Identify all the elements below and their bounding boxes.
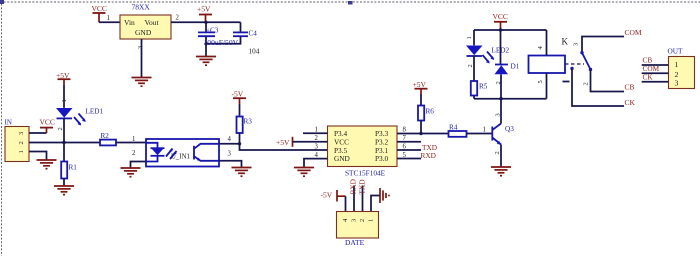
resistor R2 (100, 132, 116, 146)
relay NC contact to CK (563, 67, 625, 106)
svg-text:5: 5 (537, 80, 544, 83)
ground at opto pin3 (232, 168, 252, 177)
connector DATE (337, 212, 379, 248)
power -5V (R3) (232, 90, 247, 105)
svg-text:DATE: DATE (345, 238, 365, 247)
svg-text:COM: COM (625, 28, 642, 37)
ground under Q3 (491, 167, 511, 176)
svg-text:+5V: +5V (197, 5, 211, 14)
relay armature (582, 53, 592, 72)
wire opto pin4 to R3 junction (219, 136, 240, 144)
svg-text:R2: R2 (101, 132, 110, 140)
svg-text:1: 1 (61, 99, 68, 102)
svg-text:R6: R6 (426, 108, 435, 116)
power -5V (DATE) (321, 190, 346, 202)
power VCC (IN pin3) (40, 117, 55, 133)
svg-text:C4: C4 (249, 29, 258, 37)
wire IN pin3 to VCC (29, 132, 47, 134)
svg-text:6: 6 (403, 144, 407, 151)
svg-text:78XX: 78XX (132, 3, 151, 12)
wire MCU pin4 GND (304, 152, 328, 167)
svg-text:-5V: -5V (232, 90, 244, 99)
wire MCU pin1 stub (303, 127, 328, 134)
sheet center tick (348, 1, 353, 5)
svg-text:GND: GND (135, 28, 152, 37)
svg-text:2: 2 (57, 127, 64, 130)
net label CB (625, 82, 635, 91)
ground under C3 (196, 57, 216, 66)
value label C3 100uF/50V (204, 38, 239, 47)
svg-text:+C3: +C3 (206, 26, 219, 34)
LED LED2 (466, 30, 509, 81)
svg-text:1: 1 (675, 60, 679, 69)
svg-text:1: 1 (315, 127, 318, 134)
wire relay bottom rail (474, 98, 547, 100)
wire MCU pin8 to R4 (397, 127, 449, 134)
wire opto output to MCU P3.5 (240, 144, 328, 150)
svg-text:RXD: RXD (421, 151, 436, 160)
connector IN (5, 119, 30, 162)
svg-text:CB: CB (625, 82, 635, 91)
optocoupler U_IN1 (146, 139, 219, 167)
svg-text:+5V: +5V (413, 80, 427, 89)
svg-text:4: 4 (315, 152, 319, 159)
power +5V (LED1) (56, 71, 71, 85)
wire relay top rail (474, 29, 547, 31)
svg-text:TXD: TXD (358, 180, 367, 195)
junction at +5V / C3 (204, 21, 207, 24)
capacitor C4 (206, 22, 260, 55)
wire IN pin2 main input net (29, 142, 100, 144)
capacitor C3 (198, 22, 219, 56)
wire OUT pin2 (642, 64, 669, 73)
junction D1/collector (499, 97, 502, 100)
svg-text:R4: R4 (449, 123, 458, 131)
junction LED1/R1 on input net (62, 141, 65, 144)
svg-text:-5V: -5V (321, 191, 333, 200)
wire IN pin1 to ground (29, 152, 47, 160)
transistor Q3 (492, 113, 514, 166)
resistor R3 (237, 104, 253, 144)
svg-text:100uF/50V: 100uF/50V (204, 38, 239, 47)
svg-text:1: 1 (368, 219, 375, 222)
wire opto pin2 to ground (131, 150, 147, 168)
svg-text:Vin: Vin (124, 18, 135, 27)
svg-text:LED1: LED1 (86, 108, 104, 116)
wire DATE pin3 RXD (349, 179, 358, 211)
wire DATE pin4 (345, 196, 347, 211)
svg-text:+5V: +5V (56, 71, 70, 80)
wire MCU pin6 TXD (397, 143, 437, 152)
power +5V (R6) (413, 80, 428, 94)
wire OUT pin1 (642, 55, 669, 65)
svg-text:2: 2 (176, 15, 180, 22)
ground at opto pin2 (121, 168, 141, 177)
connector OUT (668, 46, 695, 88)
wire opto pin3 to ground (219, 150, 242, 167)
power +5V (regulator output) (197, 5, 212, 23)
svg-text:3: 3 (675, 78, 679, 87)
svg-text:OUT: OUT (668, 46, 684, 55)
regulator U 78XX (120, 3, 171, 40)
svg-text:104: 104 (249, 47, 260, 55)
wire VCC to 78XX Vin (99, 21, 120, 23)
ground under R1 (54, 186, 74, 195)
wire R4 to Q3 base (467, 126, 493, 133)
junction C4 return (204, 42, 207, 45)
junction R3/opto output (238, 142, 241, 145)
wire 78XX Vout to +5V node (171, 21, 241, 23)
svg-text:CK: CK (625, 98, 636, 107)
svg-text:3: 3 (18, 132, 25, 135)
svg-text:R5: R5 (479, 83, 488, 91)
wire DATE pin2 TXD (358, 180, 367, 212)
svg-text:2: 2 (132, 150, 136, 157)
wire MCU pin2 VCC (293, 135, 328, 142)
svg-text:1: 1 (107, 15, 110, 22)
svg-text:2: 2 (583, 82, 590, 85)
svg-text:2: 2 (467, 64, 474, 67)
LED LED1 (56, 85, 103, 143)
svg-text:D1: D1 (511, 63, 520, 71)
wire MCU pin5 RXD (397, 151, 436, 160)
relay actuation dashed link (565, 63, 584, 65)
svg-text:U_IN1: U_IN1 (171, 153, 190, 160)
power VCC (78XX input) (92, 4, 107, 23)
net label COM (625, 28, 642, 37)
ground under 78XX (132, 78, 152, 87)
svg-text:R1: R1 (69, 164, 78, 172)
svg-text:7: 7 (403, 135, 407, 142)
resistor R6 (418, 94, 434, 134)
resistor R4 (449, 123, 467, 137)
svg-text:VCC: VCC (40, 117, 55, 126)
svg-text:3: 3 (137, 46, 144, 49)
wire OUT pin3 (642, 72, 669, 81)
svg-text:3: 3 (573, 43, 580, 46)
svg-text:2: 2 (359, 219, 366, 222)
svg-text:CK: CK (643, 72, 654, 81)
svg-text:GND: GND (334, 154, 350, 163)
svg-text:1: 1 (132, 136, 135, 143)
svg-text:4: 4 (228, 136, 232, 143)
svg-text:2: 2 (315, 135, 319, 142)
diode D1 (495, 30, 520, 99)
wire R2 to opto pin1 (116, 136, 146, 143)
ground (rotated) at DATE pin1 (380, 188, 389, 203)
wire 78XX GND pin 3 (137, 39, 144, 77)
wire MCU pin7 stub (397, 135, 421, 142)
sheet border left (0, 0, 4, 256)
relay K coil (529, 30, 566, 99)
pin 3 label MCU (315, 144, 319, 151)
svg-text:+5V: +5V (276, 138, 290, 147)
pin 2 label 78XX (176, 15, 180, 22)
MCU U STC15F104E (328, 126, 398, 178)
wire DATE pin1 to ground (371, 196, 380, 212)
svg-text:8: 8 (403, 127, 407, 134)
svg-text:3: 3 (315, 144, 319, 151)
ground at IN pin1 (37, 160, 57, 169)
junction R6 / pin8 net (419, 132, 422, 135)
relay K label (562, 37, 580, 47)
wire Q3 collector (500, 99, 502, 124)
pin 1 label 78XX (107, 15, 110, 22)
power +5V (MCU VCC) (276, 137, 293, 147)
resistor R1 (61, 143, 77, 186)
net label CK (625, 98, 636, 107)
svg-text:K: K (562, 37, 569, 47)
svg-text:VCC: VCC (92, 4, 107, 13)
svg-text:CB: CB (643, 55, 653, 64)
svg-text:P3.0: P3.0 (375, 154, 389, 163)
svg-text:STC15F104E: STC15F104E (345, 169, 386, 178)
svg-text:4: 4 (537, 46, 544, 50)
ground at MCU GND (294, 168, 314, 177)
svg-text:1: 1 (466, 36, 473, 39)
svg-text:Vout: Vout (145, 18, 160, 27)
junction VCC/D1 (499, 28, 502, 31)
relay NO contact to CB (583, 70, 625, 92)
svg-text:2: 2 (494, 151, 501, 154)
svg-text:Q3: Q3 (505, 125, 514, 133)
svg-text:5: 5 (403, 152, 407, 159)
svg-text:2: 2 (495, 81, 502, 84)
power VCC (relay) (493, 12, 508, 30)
svg-text:1: 1 (18, 150, 25, 153)
relay switch common (580, 37, 624, 55)
svg-text:VCC: VCC (493, 12, 508, 21)
svg-text:3: 3 (228, 150, 232, 157)
sheet border top (0, 1, 700, 3)
svg-text:2: 2 (18, 141, 25, 144)
svg-text:IN: IN (5, 119, 12, 127)
resistor R5 (471, 81, 488, 99)
svg-text:RXD: RXD (349, 179, 358, 194)
svg-text:R3: R3 (244, 118, 253, 126)
svg-text:3: 3 (351, 219, 358, 222)
svg-text:1: 1 (483, 126, 486, 133)
